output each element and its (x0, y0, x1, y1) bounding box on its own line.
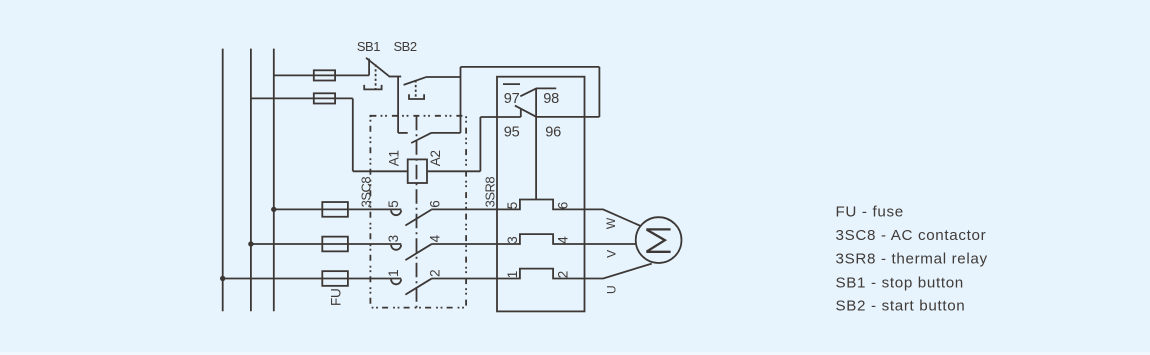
svg-text:FU: FU (329, 288, 344, 306)
svg-text:1: 1 (386, 270, 401, 277)
svg-text:6: 6 (427, 200, 442, 207)
svg-text:3SR8: 3SR8 (483, 177, 498, 208)
svg-text:4: 4 (427, 234, 442, 242)
svg-text:97: 97 (504, 91, 520, 107)
svg-text:3SC8: 3SC8 (358, 177, 373, 208)
svg-text:SB1 - stop button: SB1 - stop button (836, 274, 964, 291)
svg-text:3SR8 - thermal relay: 3SR8 - thermal relay (836, 251, 988, 268)
svg-text:A1: A1 (387, 150, 402, 166)
svg-text:96: 96 (545, 124, 561, 140)
svg-text:FU - fuse: FU - fuse (836, 203, 904, 220)
svg-text:SB2 - start button: SB2 - start button (836, 298, 966, 315)
svg-text:5: 5 (386, 200, 401, 207)
svg-text:5: 5 (505, 202, 520, 209)
svg-text:6: 6 (556, 202, 571, 209)
svg-text:2: 2 (556, 271, 571, 278)
svg-text:2: 2 (427, 270, 442, 277)
svg-text:4: 4 (556, 236, 571, 244)
svg-text:W: W (604, 217, 618, 229)
svg-text:1: 1 (505, 271, 520, 278)
svg-text:A2: A2 (428, 150, 443, 166)
svg-text:3: 3 (386, 235, 401, 242)
svg-text:U: U (605, 285, 619, 294)
svg-text:98: 98 (543, 91, 559, 107)
svg-text:V: V (604, 250, 618, 258)
svg-text:95: 95 (504, 124, 520, 140)
svg-text:SB2: SB2 (394, 39, 417, 54)
svg-text:3SC8 - AC contactor: 3SC8 - AC contactor (836, 227, 987, 244)
svg-text:SB1: SB1 (357, 39, 380, 54)
svg-text:3: 3 (505, 236, 520, 243)
